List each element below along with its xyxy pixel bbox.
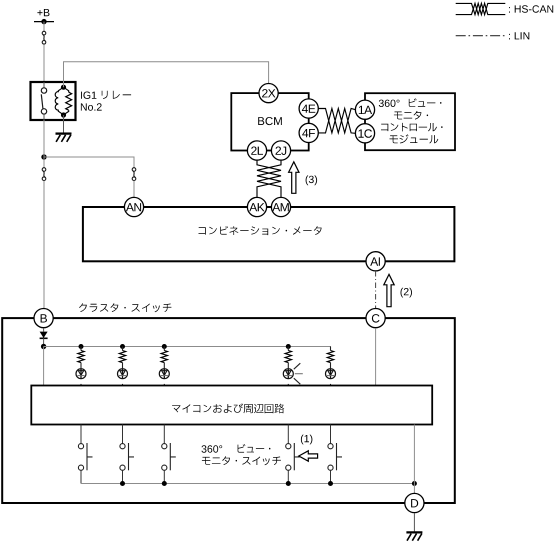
wire LED 4 to microcomputer box	[287, 384, 289, 386]
junction bus branch 1	[79, 344, 84, 349]
switch 3	[162, 443, 176, 470]
wire LED 2 to microcomputer box	[122, 384, 124, 386]
wire switch 2 to ground bus	[122, 470, 124, 483]
label 360 module line2	[394, 111, 428, 120]
LED 2	[118, 369, 128, 379]
wire D to ground	[413, 513, 415, 531]
label 360 view monitor switch line2	[202, 456, 281, 465]
label (2)	[401, 288, 413, 298]
label combination meter	[199, 226, 322, 235]
label 360 module line1a	[379, 100, 400, 107]
LED 5	[326, 369, 336, 379]
junction ground bus	[328, 481, 333, 486]
junction ground bus at D column	[412, 481, 417, 486]
pin C	[366, 309, 385, 328]
wire microcomputer to switch 5	[330, 425, 332, 444]
wire B to diode	[43, 328, 45, 332]
switch 1	[78, 443, 92, 470]
pin AN	[124, 197, 143, 216]
wire resistor to LED 3	[163, 363, 165, 369]
wire B column to microcomputer box	[43, 347, 45, 386]
wire switch ground bus	[81, 483, 414, 485]
wire connector to relay box	[43, 44, 45, 82]
wire resistor to LED 2	[122, 363, 124, 369]
wire branch 5	[330, 347, 332, 351]
wire microcomputer to switch 1	[80, 425, 82, 444]
wire LED 1 to microcomputer box	[80, 384, 82, 386]
pin 2X	[259, 84, 278, 103]
junction bus branch 4	[286, 344, 291, 349]
relay contact lever	[41, 94, 43, 108]
ground (relay)	[56, 134, 72, 142]
switch 2	[120, 443, 134, 470]
junction bus branch 2	[120, 344, 125, 349]
junction on +B feed	[41, 154, 46, 159]
relay coil parallel resistor	[64, 87, 69, 92]
diode (cluster feed)	[40, 332, 48, 338]
pin 2L	[247, 141, 266, 160]
pin 4F	[299, 123, 318, 142]
wire branch 3	[163, 347, 165, 351]
label IG1 relay line1a	[81, 92, 96, 99]
wire ground bus to pin D	[413, 484, 415, 494]
inline connector squiggle 1	[42, 31, 46, 44]
wire switch 5 to ground bus	[330, 470, 332, 483]
resistor branch 3	[161, 351, 167, 363]
label IG1 relay line1b	[102, 91, 131, 99]
junction ground bus	[286, 481, 291, 486]
wire HS-CAN twisted pair 2L-AK / 2J-AM	[257, 160, 281, 197]
wire resistor to LED 5	[330, 363, 332, 369]
wire microcomputer to switch 4	[287, 425, 289, 444]
wire resistor to LED 4	[287, 363, 289, 369]
wire +B down to connector	[43, 22, 45, 32]
resistor branch 1	[78, 351, 84, 363]
wire relay coil to ground	[63, 115, 65, 133]
switch 5	[328, 443, 342, 470]
relay coil top junction	[61, 85, 66, 90]
pin AK	[247, 197, 266, 216]
relay contact wire in	[43, 82, 45, 88]
wire HS-CAN twisted pair 4E-1A / 4F-1C	[318, 109, 355, 133]
label 360 module line4	[390, 134, 439, 143]
pin D	[405, 493, 424, 512]
LED 4 (with indicator rays)	[283, 363, 303, 384]
label (1)	[301, 435, 313, 445]
LED 3	[159, 369, 169, 379]
pin 2J	[271, 141, 290, 160]
wire switch 4 to ground bus	[287, 470, 289, 483]
resistor branch 2	[119, 351, 125, 363]
wire microcomputer to ground bus	[413, 425, 415, 484]
wire microcomputer to switch 3	[163, 425, 165, 444]
label 360 module line3	[381, 123, 443, 131]
legend label HS-CAN	[509, 5, 553, 12]
junction bus feed	[41, 344, 46, 349]
junction bus branch 3	[162, 344, 167, 349]
relay contact top terminal	[41, 88, 46, 93]
wire LED supply bus	[44, 347, 331, 351]
wire LED 5 to microcomputer box	[330, 384, 332, 386]
arrow (1)	[299, 451, 318, 461]
resistor branch 4	[285, 351, 291, 363]
module microcomputer and peripheral circuit box	[31, 386, 432, 425]
relay coil (inductor)	[55, 87, 63, 115]
relay IG1 No.2 box	[31, 82, 76, 120]
wire relay to junction	[43, 120, 45, 157]
node +B label	[37, 9, 49, 16]
wire microcomputer to switch 2	[122, 425, 124, 444]
module BCM box	[231, 93, 308, 150]
wire resistor to LED 1	[80, 363, 82, 369]
pin AI	[366, 252, 385, 271]
LED 1	[76, 369, 86, 379]
legend LIN dash-dot line	[456, 35, 506, 37]
inline connector squiggle 3	[132, 168, 136, 181]
wire branch 2	[122, 347, 124, 351]
pin AM	[271, 197, 290, 216]
pin B	[34, 309, 53, 328]
wire branch 1	[80, 347, 82, 351]
ground (cluster switch)	[406, 532, 422, 540]
junction ground bus	[120, 481, 125, 486]
label microcomputer	[172, 403, 284, 413]
wire switch 1 to ground bus	[80, 470, 82, 483]
relay coil bottom junction	[61, 112, 66, 117]
relay contact wire out	[43, 114, 45, 120]
legend HS-CAN twisted-pair symbol	[456, 3, 506, 14]
wire connector to pin AN	[133, 181, 135, 198]
wire branch 4	[287, 347, 289, 351]
arrow (2)	[384, 274, 394, 306]
wire LIN AI to C	[375, 271, 377, 308]
label 360 module line1b	[409, 98, 442, 107]
wire relay coil to BCM pin 2X	[64, 62, 269, 87]
arrow (3)	[289, 162, 299, 194]
switch 4 (360 view monitor switch)	[286, 443, 300, 470]
wire junction down	[43, 157, 45, 168]
wire connector to node B	[43, 181, 45, 309]
label BCM	[258, 117, 282, 125]
module cluster switch box	[2, 318, 455, 503]
inline connector squiggle 2	[42, 168, 46, 181]
wire C to microcomputer box	[375, 328, 377, 385]
legend label LIN	[509, 32, 529, 39]
wire switch 3 to ground bus	[163, 470, 165, 483]
pin 1C	[355, 124, 374, 143]
label 360 view monitor switch line1b	[238, 444, 271, 453]
junction ground bus	[162, 481, 167, 486]
module combination meter box	[83, 207, 455, 261]
relay contact bottom terminal	[41, 109, 46, 114]
pin 1A	[355, 100, 374, 119]
wire diode to bus junction	[43, 338, 45, 346]
wire junction to AN branch	[44, 157, 134, 168]
node +B terminal tick	[34, 21, 54, 23]
label 360 view monitor switch line1a	[202, 445, 223, 452]
label cluster switch	[79, 303, 171, 312]
wire LED 3 to microcomputer box	[163, 384, 165, 386]
pin 4E	[299, 99, 318, 118]
resistor branch 5	[327, 351, 333, 363]
module 360-view-monitor-control box	[365, 93, 455, 150]
label (3)	[306, 175, 318, 185]
label IG1 relay line2	[81, 103, 102, 110]
